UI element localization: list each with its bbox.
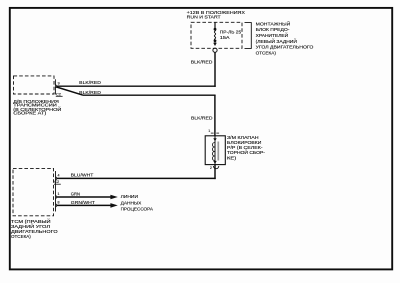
- svg-text:ТОРНОЙ СБОР-: ТОРНОЙ СБОР-: [227, 148, 265, 155]
- svg-text:ОТСЕКА): ОТСЕКА): [256, 50, 277, 55]
- svg-text:4: 4: [58, 173, 60, 177]
- svg-text:ПР-ЛЬ 25: ПР-ЛЬ 25: [220, 29, 242, 34]
- svg-text:GRN/WHT: GRN/WHT: [71, 200, 95, 205]
- svg-text:ДАННЫХ: ДАННЫХ: [121, 200, 143, 205]
- svg-text:BLK/RED: BLK/RED: [191, 115, 213, 120]
- svg-text:СБОРКЕ АТ): СБОРКЕ АТ): [13, 111, 47, 116]
- svg-text:ХРАНИТЕЛЕЙ: ХРАНИТЕЛЕЙ: [256, 31, 289, 38]
- svg-text:9: 9: [58, 82, 60, 86]
- svg-text:(ЛЕВЫЙ ЗАДНИЙ: (ЛЕВЫЙ ЗАДНИЙ: [256, 37, 297, 44]
- svg-text:C2: C2: [56, 91, 61, 96]
- svg-text:МОНТАЖНЫЙ: МОНТАЖНЫЙ: [256, 19, 291, 26]
- svg-text:15А: 15А: [220, 35, 231, 40]
- svg-text:BLK/RED: BLK/RED: [191, 59, 213, 64]
- svg-text:ЛИНИИ: ЛИНИИ: [121, 194, 138, 199]
- svg-text:1: 1: [208, 129, 210, 133]
- svg-text:2: 2: [210, 166, 212, 170]
- svg-text:1: 1: [58, 192, 60, 196]
- svg-text:ОТСЕКА): ОТСЕКА): [11, 234, 31, 239]
- svg-text:RUN И START: RUN И START: [187, 15, 221, 20]
- svg-text:BLK/RED: BLK/RED: [79, 80, 101, 85]
- svg-text:GRN: GRN: [71, 192, 80, 197]
- svg-text:БЛОК ПРЕДО-: БЛОК ПРЕДО-: [256, 27, 290, 32]
- svg-text:ПРОЦЕССОРА: ПРОЦЕССОРА: [121, 206, 154, 211]
- svg-text:BLU/WHT: BLU/WHT: [71, 173, 94, 178]
- svg-text:C2: C2: [54, 179, 59, 184]
- svg-text:УГОЛ ДВИГАТЕЛЬНОГО: УГОЛ ДВИГАТЕЛЬНОГО: [256, 45, 314, 50]
- svg-text:КЕ): КЕ): [227, 155, 237, 160]
- svg-text:8: 8: [58, 201, 60, 205]
- svg-text:BLK/RED: BLK/RED: [79, 90, 101, 95]
